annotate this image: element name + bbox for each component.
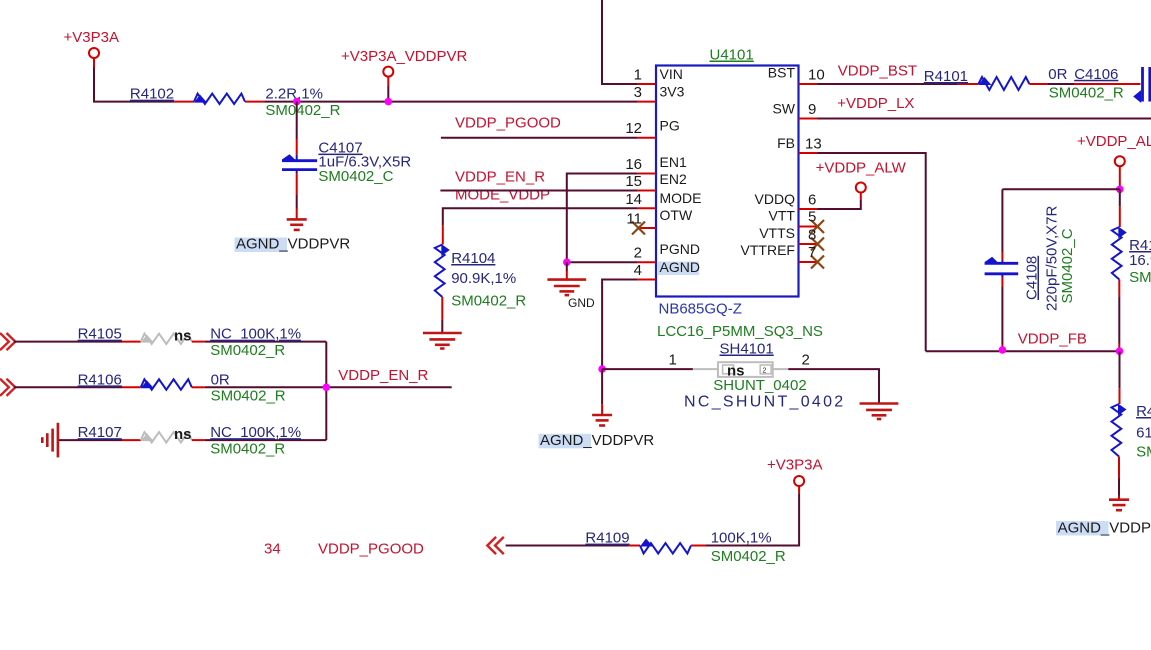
resistor R4111 [1119,206,1121,227]
pin 6 stub VDDQ [799,208,818,210]
wire R4101 to C4106 [1048,83,1074,85]
wire power lead to junction [387,86,389,102]
wire VIN vertical from top to pin 1 [602,0,637,84]
svg-text:SW: SW [772,101,795,117]
wire R4113 branch down [1119,351,1121,388]
wire C4107 to ground [296,195,298,209]
svg-text:7: 7 [808,244,816,261]
svg-text:VDDP_FB: VDDP_FB [1018,330,1087,347]
wire BST to R4101 [818,83,958,85]
label AGND_VDDPVR with highlight (right) [1056,521,1109,536]
svg-text:2: 2 [802,352,810,369]
resistor R4113 [1119,388,1121,404]
svg-text:GND: GND [568,296,595,310]
svg-text:100K,1%: 100K,1% [711,530,772,547]
wire from R4102 to pin 3 [264,101,637,103]
svg-text:VTTS: VTTS [759,225,795,241]
ground sideways power symbol at R4107 [42,423,58,458]
resistor R4101 [958,83,979,85]
pin 3 stub [637,101,656,103]
svg-text:SM0402_C: SM0402_C [1059,228,1076,303]
svg-text:SM0402_C: SM0402_C [318,168,393,185]
resistor R4106 [122,386,141,388]
capacitor C4108 [1001,252,1003,261]
svg-text:SH4101: SH4101 [720,341,774,358]
svg-text:AGND_VDDPVR: AGND_VDDPVR [540,432,654,449]
wire shunt pin 2 to ground [788,369,879,403]
no-connect X on pin 11 OTW [632,222,645,235]
wire R4107 row left [59,439,122,441]
svg-text:ns: ns [174,328,192,345]
pin 10 stub BST [799,83,818,85]
pin 2 stub [637,261,656,263]
wire vertical connector R4105/R4106/R4107 [325,342,327,441]
power symbol +V3P3A bottom [798,486,800,493]
svg-text:VTT: VTT [769,208,796,224]
svg-text:VDDP_EN_R: VDDP_EN_R [455,169,545,186]
svg-text:+VDDP_ALW: +VDDP_ALW [1077,133,1151,150]
highlight for AGND pin name [658,262,699,276]
wire R4113 to ground [1118,479,1120,496]
pin 16 stub [637,173,656,175]
pin 11 stub [637,227,656,229]
resistor R4105 (not stuffed) [122,341,141,343]
wire R4111 branch down from junction [1119,189,1121,206]
wire VDDP_FB horizontal [926,350,1120,352]
svg-text:R4109: R4109 [585,530,629,547]
power symbol +V3P3A top-left [89,48,99,58]
wire R4106 row left [14,386,122,388]
svg-text:VDDQ: VDDQ [755,191,796,207]
svg-text:R4106: R4106 [78,371,122,388]
svg-text:R4101: R4101 [924,68,968,85]
wire EN2 pin 15 [440,190,637,192]
svg-text:FB: FB [777,135,795,151]
svg-text:PG: PG [660,118,680,134]
ground AGND under C4107 [287,219,307,230]
svg-text:16.9K,1%: 16.9K,1% [1129,252,1151,269]
wire PGND pin 2 [567,261,637,263]
svg-text:C4108: C4108 [1024,256,1041,300]
svg-text:90.9K,1%: 90.9K,1% [451,270,516,287]
no-connect X on pin 8 [811,238,824,251]
svg-text:VTTREF: VTTREF [741,242,795,258]
svg-text:PGND: PGND [660,241,700,257]
pin 12 stub [637,137,656,139]
wire C4108 branch down [1001,189,1003,252]
svg-text:4: 4 [634,262,642,279]
wire junction left to C4108 branch [1002,188,1119,190]
svg-text:+VDDP_ALW: +VDDP_ALW [816,160,907,177]
svg-text:6: 6 [808,192,816,209]
pin 1 stub [637,83,656,85]
svg-text:R4113: R4113 [1136,403,1151,420]
svg-text:3: 3 [634,84,642,101]
pin 4 stub [637,279,656,281]
svg-text:EN1: EN1 [660,154,687,170]
svg-text:+V3P3A_VDDPVR: +V3P3A_VDDPVR [341,48,467,65]
svg-text:2: 2 [763,368,767,375]
ground GND at IC pin 2 [547,280,586,296]
svg-text:NC_SHUNT_0402: NC_SHUNT_0402 [684,394,846,411]
no-connect X on pin 7 [811,256,824,269]
wire R4106 row right to VDDP_EN_R [205,386,452,388]
svg-text:10: 10 [808,67,825,84]
no-connect X on pin 5 [811,220,824,233]
pin 7 stub VTTREF [799,261,818,263]
wire EN1 pin 16 with vertical down to PGND junction [567,174,637,263]
svg-text:VDDP_BST: VDDP_BST [838,63,917,80]
off-page connector chevrons R4106 row [0,379,15,396]
svg-text:0R: 0R [1048,66,1067,83]
svg-text:15: 15 [625,173,642,190]
svg-text:61.9K,1%: 61.9K,1% [1136,424,1151,441]
resistor R4109 [629,545,640,547]
svg-text:13: 13 [805,136,822,153]
pin 15 stub [637,190,656,192]
svg-text:ns: ns [174,426,192,443]
wire junction down to C4107 [296,102,298,139]
off-page connector chevrons R4109 row [487,537,504,554]
svg-text:MODE: MODE [660,190,702,206]
resistor R4104 [442,226,444,245]
wire junction to GND [566,262,568,271]
node junction at R4102 output [293,98,301,106]
wire R4107 row right [205,439,326,441]
svg-text:VDDP_EN_R: VDDP_EN_R [338,367,428,384]
svg-text:SM0402_R: SM0402_R [451,293,526,310]
svg-text:LCC16_P5MM_SQ3_NS: LCC16_P5MM_SQ3_NS [657,323,823,340]
svg-text:+V3P3A: +V3P3A [64,29,119,46]
svg-text:R4104: R4104 [451,250,495,267]
node junction C4108/VDDP_FB [999,346,1007,354]
svg-text:OTW: OTW [660,207,693,223]
svg-text:NC_100K,1%: NC_100K,1% [210,424,301,441]
off-page connector chevrons R4105 row [0,333,15,350]
ground AGND under R4113 [1109,500,1129,511]
pin 8 stub VTTS [799,243,818,245]
svg-text:AGND_VDDPVR: AGND_VDDPVR [1058,519,1151,536]
capacitor C4106 at right edge [1141,67,1144,102]
svg-text:SM0402_R: SM0402_R [711,548,786,565]
capacitor C4107 [296,139,298,155]
wire from +V3P3A down and right to R4102 [94,68,174,102]
svg-text:VDDP_PGOOD: VDDP_PGOOD [318,541,424,558]
pin 13 stub FB [799,152,818,154]
svg-text:BST: BST [768,65,796,81]
power symbol +VDDP_ALW [856,183,866,193]
svg-text:0R: 0R [211,371,230,388]
svg-text:220pF/50V,X7R: 220pF/50V,X7R [1044,205,1061,311]
svg-text:AGND: AGND [660,259,700,275]
svg-text:SM0402_R: SM0402_R [211,388,286,405]
svg-text:MODE_VDDP: MODE_VDDP [455,187,550,204]
wire MODE pin 14 with corner down to R4104 [443,208,637,226]
node junction at +V3P3A_VDDPVR [385,98,393,106]
svg-text:R4102: R4102 [130,86,174,103]
svg-text:+VDDP_LX: +VDDP_LX [837,95,914,112]
svg-text:SM0402_R: SM0402_R [210,441,285,458]
wire AGND pin 4 down to shunt junction [602,280,637,370]
wire R4109 right with corner up to +V3P3A [706,493,799,545]
svg-text:SM0402_R: SM0402_R [265,102,340,119]
pin 14 stub [637,207,656,209]
node junction VDDP_EN_R [323,384,331,392]
wire junction to AGND ground [601,369,603,404]
resistor R4102 [174,101,194,103]
svg-text:NC_100K,1%: NC_100K,1% [210,326,301,343]
svg-text:1: 1 [669,352,677,369]
svg-text:+V3P3A: +V3P3A [767,457,822,474]
svg-text:16: 16 [625,156,642,173]
ground AGND under shunt junction [592,415,612,426]
wire R4105 row left [14,341,122,343]
svg-text:1: 1 [634,67,642,84]
pin 9 stub SW [799,118,818,120]
label AGND_VDDPVR with highlight (lower) [539,434,592,449]
pin 5 stub VTT [799,226,818,228]
node junction at PGND [563,258,571,266]
wire FB down to VDDP_FB [818,153,926,351]
wire C4108 to VDDP_FB [1001,287,1003,345]
wire R4105 row right [205,341,326,343]
svg-text:11: 11 [626,211,642,228]
resistor R4107 (not stuffed) [122,439,141,441]
node junction R4111/VDDP_FB [1116,347,1124,355]
svg-text:SM0402_R: SM0402_R [210,342,285,359]
svg-text:SM0402_R: SM0402_R [1136,444,1151,461]
power symbol +V3P3A_VDDPVR [383,67,393,77]
svg-text:VIN: VIN [660,66,683,82]
svg-text:34: 34 [264,541,281,558]
svg-text:5: 5 [808,209,816,226]
node junction +VDDP_ALW [1116,186,1124,194]
svg-text:EN2: EN2 [660,171,687,187]
svg-text:SM0402_R: SM0402_R [1129,269,1151,286]
wire R4111 to VDDP_FB [1118,296,1120,343]
svg-text:3V3: 3V3 [660,84,685,100]
wire junction to shunt pin 1 [602,368,693,370]
svg-text:8: 8 [808,227,816,244]
svg-text:R4105: R4105 [78,326,122,343]
svg-text:2: 2 [634,245,642,262]
svg-text:14: 14 [625,191,642,208]
wire VDDP_PGOOD to pin 12 [441,137,637,139]
node junction at shunt [598,365,606,373]
svg-text:NB685GQ-Z: NB685GQ-Z [659,301,742,318]
svg-text:VDDP_PGOOD: VDDP_PGOOD [455,114,561,131]
label AGND_VDDPVR with highlight [235,238,288,253]
svg-text:9: 9 [808,101,816,118]
power symbol +VDDP_ALW right [1115,156,1125,166]
svg-text:R4107: R4107 [78,424,122,441]
svg-text:SHUNT_0402: SHUNT_0402 [713,377,806,394]
svg-text:AGND_VDDPVR: AGND_VDDPVR [236,236,350,253]
svg-text:C4106: C4106 [1074,66,1118,83]
wire SW to right edge [818,118,1151,120]
svg-text:12: 12 [625,120,642,137]
ground GND right of shunt [860,404,899,420]
shunt SH4101 (not stuffed) [693,368,718,370]
wire VDDQ to +VDDP_ALW [818,200,861,209]
ground GND under R4104 [423,333,462,349]
op-amp U1 IC body U4101 [656,66,799,297]
wire R4109 row left [506,545,629,547]
svg-text:SM0402_R: SM0402_R [1049,85,1124,102]
svg-text:U4101: U4101 [710,47,754,64]
wire R4104 to ground [441,319,443,333]
